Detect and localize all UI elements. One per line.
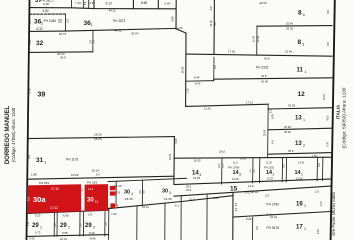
svg-text:1: 1 [303,118,305,122]
svg-text:0.60: 0.60 [165,2,171,6]
svg-text:30: 30 [87,198,94,204]
svg-text:26.9: 26.9 [186,184,192,188]
svg-text:8.46: 8.46 [90,237,96,240]
svg-text:14.9: 14.9 [248,184,254,188]
svg-text:32: 32 [36,40,44,47]
svg-text:29: 29 [32,223,39,229]
svg-text:18.25: 18.25 [94,132,102,136]
svg-text:2.9: 2.9 [315,189,319,193]
svg-text:6.47: 6.47 [327,141,330,146]
svg-text:3: 3 [169,191,171,195]
svg-text:1: 1 [304,204,306,208]
svg-text:ITALIA: ITALIA [336,104,341,119]
svg-text:9.10: 9.10 [106,1,112,5]
svg-text:8.8: 8.8 [256,226,259,230]
svg-text:6.4: 6.4 [272,140,275,144]
svg-text:8.42: 8.42 [195,82,201,86]
svg-text:14.05: 14.05 [168,153,172,160]
svg-text:30: 30 [162,189,168,195]
svg-text:1.56: 1.56 [312,155,317,158]
svg-text:14.08: 14.08 [240,158,247,161]
svg-text:1.45: 1.45 [187,88,190,93]
svg-text:PH 2784: PH 2784 [267,202,280,206]
svg-text:30: 30 [124,190,130,196]
svg-text:stre Padre Michel Saba: stre Padre Michel Saba [331,192,336,236]
svg-text:17.26: 17.26 [228,49,235,53]
svg-text:8.8: 8.8 [327,42,330,46]
svg-text:12: 12 [298,91,306,98]
svg-text:6.73: 6.73 [35,231,41,235]
svg-text:98.02: 98.02 [251,190,258,194]
svg-text:PH 183: PH 183 [87,180,97,184]
svg-text:35.9: 35.9 [288,149,294,153]
svg-text:16.35: 16.35 [194,158,201,162]
svg-text:29.58: 29.58 [263,129,266,136]
svg-text:PH 1/786: PH 1/786 [228,165,240,169]
svg-text:17.32: 17.32 [50,206,58,210]
svg-text:11: 11 [297,67,304,73]
svg-text:35.39: 35.39 [284,130,291,134]
svg-text:4.97: 4.97 [210,5,213,10]
svg-text:8.44: 8.44 [194,76,200,80]
svg-text:2: 2 [273,173,275,177]
svg-text:42.00: 42.00 [261,79,268,83]
svg-text:8.40: 8.40 [89,231,95,235]
svg-text:PH 2872: PH 2872 [113,19,126,23]
svg-text:16.11: 16.11 [142,205,149,209]
svg-text:18.26: 18.26 [94,137,102,141]
svg-text:2: 2 [68,226,70,230]
svg-text:6.99: 6.99 [246,217,252,221]
svg-text:7.60: 7.60 [111,212,117,216]
svg-text:42.8: 42.8 [264,56,270,60]
svg-text:1: 1 [301,172,303,176]
svg-text:3.43: 3.43 [29,237,35,240]
svg-text:6.58: 6.58 [63,213,69,217]
svg-text:(Código: 59050) Altura: 1100: (Código: 59050) Altura: 1100 [342,87,348,148]
svg-text:16: 16 [296,201,303,207]
svg-text:6.32: 6.32 [37,27,43,31]
svg-text:13: 13 [295,115,302,121]
svg-text:8.23: 8.23 [35,214,41,218]
svg-text:6.1: 6.1 [175,204,179,208]
svg-text:6.07: 6.07 [270,107,273,112]
svg-text:1: 1 [40,225,42,229]
svg-text:14.30: 14.30 [298,162,305,165]
svg-text:1.46: 1.46 [113,204,119,208]
svg-text:35.38: 35.38 [284,125,291,129]
svg-text:5.4: 5.4 [96,173,100,177]
svg-text:18.35: 18.35 [125,197,133,201]
svg-text:8.26: 8.26 [213,196,219,200]
svg-text:5.48: 5.48 [43,2,49,6]
svg-text:21.46: 21.46 [285,50,292,54]
svg-text:8.88: 8.88 [170,16,174,22]
svg-text:17: 17 [296,225,303,231]
svg-text:17.12: 17.12 [246,100,253,104]
svg-text:8.10: 8.10 [27,88,31,94]
svg-text:12.18: 12.18 [232,177,239,181]
svg-text:8.4: 8.4 [235,207,238,211]
svg-text:15: 15 [230,186,238,193]
svg-text:PH 1066: PH 1066 [44,19,57,23]
svg-text:13: 13 [295,141,302,147]
svg-text:44.32: 44.32 [114,29,122,33]
svg-text:44.11: 44.11 [109,8,117,12]
svg-text:11.8: 11.8 [233,162,238,165]
svg-text:10.3: 10.3 [222,163,225,168]
svg-text:16.1A: 16.1A [92,168,100,172]
svg-text:3: 3 [93,226,95,230]
svg-text:26.9: 26.9 [186,188,192,192]
svg-text:11: 11 [95,200,99,204]
svg-text:29: 29 [85,223,92,229]
svg-text:8.8: 8.8 [27,155,31,159]
svg-text:11.3: 11.3 [88,187,94,191]
svg-text:6.83: 6.83 [272,113,275,118]
svg-text:1: 1 [305,70,307,74]
svg-text:42.8: 42.8 [261,74,267,78]
svg-text:2.9: 2.9 [116,191,121,195]
svg-text:10.3: 10.3 [218,163,221,168]
svg-text:14.16: 14.16 [296,177,303,181]
svg-text:20x2: 20x2 [219,150,226,154]
svg-text:PH 2332: PH 2332 [256,65,269,69]
svg-text:PH 183: PH 183 [39,181,49,185]
svg-text:8.8: 8.8 [28,20,32,24]
svg-text:6.82: 6.82 [43,9,49,13]
svg-text:5.8: 5.8 [66,19,70,23]
svg-text:28.38: 28.38 [180,66,184,73]
svg-text:23.08: 23.08 [210,20,213,27]
svg-text:11.25: 11.25 [204,107,211,111]
svg-text:42.66: 42.66 [259,1,267,5]
svg-text:7.10: 7.10 [75,1,81,5]
svg-text:2.8: 2.8 [88,213,92,217]
svg-text:1.88: 1.88 [31,173,37,177]
svg-text:1: 1 [304,227,306,231]
svg-text:12.32: 12.32 [267,176,274,180]
svg-text:8.68: 8.68 [141,1,147,5]
svg-text:14.66: 14.66 [114,184,122,188]
svg-text:4.83: 4.83 [327,115,330,120]
svg-text:4.8: 4.8 [89,1,94,5]
svg-text:8.58: 8.58 [62,231,68,235]
svg-text:25.46: 25.46 [286,22,293,26]
svg-text:8.8: 8.8 [27,197,31,201]
svg-text:PH 1176: PH 1176 [66,158,78,162]
svg-text:13.67: 13.67 [323,93,326,100]
svg-text:25.30: 25.30 [286,27,293,31]
svg-text:8.8: 8.8 [214,65,217,69]
svg-text:(Código: 47050) Altura: 1100: (Código: 47050) Altura: 1100 [11,107,16,162]
svg-text:10.4: 10.4 [189,198,195,202]
svg-text:16.80: 16.80 [71,173,79,177]
svg-text:31: 31 [36,157,44,164]
svg-text:8: 8 [298,39,302,46]
svg-text:39.38: 39.38 [288,104,295,108]
svg-text:10.43: 10.43 [257,35,260,42]
svg-text:8.8: 8.8 [214,22,217,26]
svg-text:6.35: 6.35 [174,138,178,144]
svg-text:8.15: 8.15 [317,228,320,233]
svg-text:5.01: 5.01 [28,39,32,45]
svg-text:10.40: 10.40 [253,35,256,42]
svg-text:PH 9478: PH 9478 [267,226,280,230]
svg-text:29: 29 [60,223,67,229]
svg-text:5.8: 5.8 [91,40,95,44]
svg-text:3: 3 [239,173,241,177]
svg-text:8: 8 [298,9,302,16]
svg-text:8.4: 8.4 [235,202,238,206]
svg-text:8.8: 8.8 [327,10,330,14]
svg-text:26.94: 26.94 [131,32,139,36]
svg-text:11.5: 11.5 [320,201,323,206]
svg-text:16.35: 16.35 [164,197,172,201]
svg-text:4: 4 [131,192,133,196]
svg-text:39: 39 [38,91,46,98]
svg-text:2x.3a: 2x.3a [266,213,273,217]
svg-text:9.02: 9.02 [245,191,251,195]
svg-text:30a: 30a [33,195,46,204]
svg-text:51.25: 51.25 [193,176,200,180]
svg-text:4.26: 4.26 [177,26,183,30]
svg-text:26.76: 26.76 [59,32,66,36]
svg-text:17.32: 17.32 [51,187,59,191]
svg-text:26.9: 26.9 [60,55,66,59]
svg-text:11.35: 11.35 [266,161,272,164]
svg-text:2: 2 [303,144,305,148]
svg-text:PH 2292: PH 2292 [264,165,275,169]
svg-text:5.8: 5.8 [59,19,63,23]
svg-text:2.9: 2.9 [265,193,269,197]
